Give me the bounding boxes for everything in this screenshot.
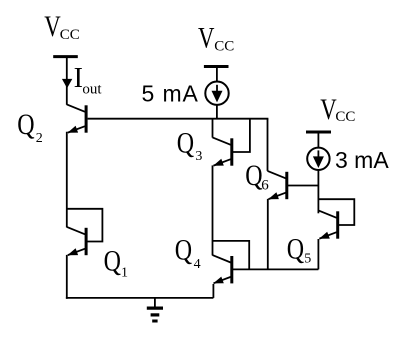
arrow Iout current direction [62, 79, 72, 88]
wire: Q2 emitter to Q1 collector [66, 132, 68, 228]
svg-text:V: V [320, 92, 336, 126]
power VCC (right supply bar) [306, 131, 331, 134]
transistor Q1 (diode-connected) [67, 227, 86, 255]
label 5 mA [142, 81, 199, 107]
svg-text:Q: Q [177, 126, 195, 159]
label Q5 [287, 232, 312, 266]
current source I1 5 mA [205, 82, 228, 105]
label VCC center [198, 20, 234, 54]
svg-text:3: 3 [195, 149, 202, 164]
wire: Q3 emitter to Q4 collector [212, 165, 214, 255]
svg-text:3 mA: 3 mA [335, 147, 389, 173]
label Q3 [177, 126, 203, 164]
wire: Q1 base-collector loop [67, 209, 103, 242]
power VCC (left supply bar) [53, 55, 78, 58]
svg-text:5: 5 [304, 252, 311, 267]
label 3 mA [335, 147, 389, 173]
transistor Q2 [67, 104, 86, 132]
label Q1 [104, 244, 128, 281]
svg-text:Q: Q [175, 233, 193, 266]
wire: 3mA source to Q6 base and Q5 collector [317, 170, 319, 213]
wire: Q5 emitter to node B [317, 239, 319, 269]
transistor Q3 (diode-connected) [213, 137, 232, 165]
current source I2 3 mA [307, 148, 329, 170]
wire: 5mA source to node A [216, 105, 218, 119]
wire: node A to Q6 collector [267, 119, 269, 171]
wire: Q1 emitter to ground bus [66, 255, 68, 299]
svg-text:1: 1 [121, 266, 128, 281]
ground [147, 298, 163, 321]
svg-text:Q: Q [104, 244, 122, 277]
svg-text:2: 2 [36, 131, 43, 146]
wire: Q6 base to 3mA node [287, 185, 318, 187]
label VCC right [320, 92, 355, 126]
wire: VCC to Q2 collector [66, 57, 68, 105]
svg-text:out: out [82, 81, 102, 97]
label Iout [74, 63, 103, 97]
svg-text:CC: CC [60, 27, 80, 43]
wire: node B bus (Q4 base / Q6 emitter / Q5 emitter) [231, 268, 318, 270]
transistor Q5 (diode-connected) [318, 210, 337, 238]
wire: ground bus [66, 297, 214, 299]
wire: Q4 base-collector loop [213, 241, 250, 270]
wire: Q6 emitter to node B [267, 199, 269, 270]
label Q2 [17, 108, 43, 146]
svg-text:6: 6 [261, 178, 269, 194]
wire: node A to Q3 collector [212, 119, 214, 138]
svg-text:V: V [198, 20, 214, 54]
wire: VCC to 5mA source [216, 67, 218, 82]
power VCC (center supply bar) [204, 65, 229, 68]
wire: VCC to 3mA source [317, 132, 319, 148]
wire: Q3 base loop from node A [231, 119, 250, 152]
label VCC left [44, 9, 80, 43]
svg-text:Q: Q [245, 158, 263, 191]
wire: Q4 emitter to ground bus [212, 284, 214, 298]
svg-text:CC: CC [335, 109, 355, 125]
wire: node A bus (Q2 base / Q3 / Q6 collector) [88, 118, 269, 120]
svg-text:5 mA: 5 mA [142, 81, 199, 107]
transistor Q6 [268, 171, 287, 199]
label Q6 [245, 158, 269, 193]
svg-text:4: 4 [194, 257, 201, 272]
transistor Q4 (diode-connected) [213, 255, 232, 283]
svg-text:Q: Q [17, 108, 35, 141]
svg-text:V: V [44, 9, 60, 43]
wire: Q5 base-collector loop [318, 199, 354, 225]
label Q4 [175, 233, 201, 272]
svg-text:CC: CC [214, 38, 234, 54]
svg-text:Q: Q [287, 232, 305, 265]
